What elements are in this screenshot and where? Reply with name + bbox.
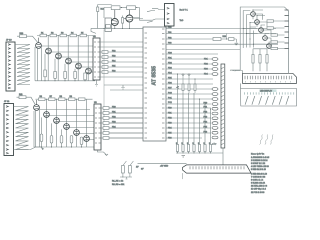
transistor Q14 <box>124 10 133 22</box>
3 vertical resistors right mid <box>252 49 268 72</box>
transistor Q1 <box>36 38 42 49</box>
squiggle wires <box>260 135 274 145</box>
resistor R10 above JP10 <box>17 33 38 42</box>
svg-text:10 XTAL 12M 1 6 6: 10 XTAL 12M 1 6 6 <box>251 185 267 188</box>
svg-text:Nome Qt Pr Tot: Nome Qt Pr Tot <box>251 153 264 156</box>
svg-text:R5: R5 <box>81 32 83 34</box>
labels PB right end <box>204 102 208 133</box>
transistor Q4 <box>66 58 72 64</box>
wire zigzag bundle from JP11 <box>14 107 29 150</box>
transistor Q18 <box>263 36 268 41</box>
svg-text:R9: R9 <box>70 96 72 98</box>
connector JP11 <box>4 101 14 156</box>
svg-text:R4: R4 <box>71 32 73 34</box>
svg-text:R7: R7 <box>50 96 52 98</box>
svg-text:8 CON 4 1 4 4: 8 CON 4 1 4 4 <box>251 180 263 182</box>
svg-text:R1: R1 <box>41 32 43 34</box>
svg-text:+ 5 v: + 5 v <box>212 144 216 146</box>
svg-text:PD2: PD2 <box>204 64 208 66</box>
transistor Q17 <box>259 28 264 33</box>
svg-text:Rx D T 1: Rx D T 1 <box>180 10 189 12</box>
transistor Q8 <box>44 112 50 118</box>
wire to block lower left <box>166 49 240 51</box>
IC U2 driver <box>93 36 100 80</box>
svg-text:R8: R8 <box>60 96 62 98</box>
parts list text <box>251 153 269 195</box>
svg-text:PD4: PD4 <box>204 74 208 76</box>
cascade1 ground bus <box>35 47 95 81</box>
wires above display strip <box>230 11 289 73</box>
svg-text:R6..R9 = 10k: R6..R9 = 10k <box>112 184 125 186</box>
oscillator bus wires <box>91 8 143 34</box>
svg-text:0V: 0V <box>141 169 144 171</box>
svg-text:4 LED 7SEG 4 15 60: 4 LED 7SEG 4 15 60 <box>251 166 269 168</box>
IC right pin labels <box>168 27 172 139</box>
transistor Q7 <box>34 100 40 110</box>
svg-text:1 AT89S8535 1 45 45: 1 AT89S8535 1 45 45 <box>251 156 269 159</box>
svg-text:+5V GND: +5V GND <box>160 165 169 167</box>
two resistors bottom mid <box>120 161 133 179</box>
wire vertical pair below Q1 <box>38 48 42 82</box>
svg-text:7 CON 20 2 8 16: 7 CON 20 2 8 16 <box>251 177 265 179</box>
long wires P0 to right block <box>166 29 278 45</box>
transistor Q10 <box>64 124 70 130</box>
transistor Q2 <box>46 48 52 54</box>
wire vertical pair below Q7 <box>36 110 40 148</box>
cascade2 collector wires <box>40 110 95 140</box>
resistor cluster mid right <box>182 74 197 93</box>
svg-text:PA3: PA3 <box>112 54 115 57</box>
long bottom wire <box>138 162 187 164</box>
display module DS1 <box>241 83 297 106</box>
svg-text:5 RES 1k 16 1 16: 5 RES 1k 16 1 16 <box>251 169 266 171</box>
cascade2 emitter resistors <box>40 117 83 147</box>
svg-text:JP 11: JP 11 <box>4 101 10 103</box>
svg-text:R6: R6 <box>40 96 42 98</box>
transistor Q3 <box>56 53 62 59</box>
resistor R21 left of block with ground <box>221 34 238 45</box>
transistor Q6 <box>86 68 92 74</box>
step wire with arrow near JP11 bottom <box>14 147 45 150</box>
svg-text:AT 8535: AT 8535 <box>152 66 158 86</box>
long wires PB to right connector <box>109 104 211 138</box>
svg-text:R1..R5 = 1k: R1..R5 = 1k <box>112 181 124 183</box>
cascade1 emitter resistors <box>44 54 87 81</box>
cascade1 resistor row R1-R5 <box>37 32 93 36</box>
wires below U2 to IC <box>104 85 143 90</box>
resistor R12 top <box>111 6 127 10</box>
right vertical connector bar <box>221 64 225 148</box>
svg-text:R20: R20 <box>223 36 226 38</box>
svg-text:9 BL202 2 22 44: 9 BL202 2 22 44 <box>251 183 265 185</box>
wire U2 bottom ground <box>95 80 98 86</box>
svg-text:PD3: PD3 <box>204 69 208 71</box>
IC U3 driver <box>94 102 101 150</box>
cascade2 vertical grid wires <box>47 99 87 147</box>
resistor R15 vertical mid <box>121 16 123 29</box>
transistor Q19 <box>267 44 272 49</box>
transistor Q16 <box>255 20 260 25</box>
step wire arrow below U3 <box>98 150 109 156</box>
connector J3 serial <box>165 4 175 29</box>
resistors right of U3 <box>101 106 143 139</box>
svg-text:PA6: PA6 <box>112 69 115 72</box>
ground below U2 wires <box>121 88 124 90</box>
long vertical wire from osc bus <box>103 30 105 135</box>
wire zigzag bundle from JP10 <box>15 45 30 85</box>
svg-text:PA5: PA5 <box>112 64 115 67</box>
wires IC right mid <box>166 54 218 99</box>
IC U1 AT8535 <box>143 27 166 141</box>
block pins <box>285 10 289 49</box>
cascade1 collector wires <box>42 46 94 72</box>
resistors right of U2 <box>100 42 143 77</box>
svg-text:TxD: TxD <box>180 20 184 22</box>
svg-text:PA4: PA4 <box>112 59 115 62</box>
transistor Q5 <box>76 63 82 69</box>
svg-text:R2: R2 <box>51 32 53 34</box>
transistor Q15 <box>251 12 256 17</box>
cascade1 vertical grid wires <box>48 36 88 81</box>
cascade2 ground bus <box>34 111 95 147</box>
display pin strip <box>243 73 297 83</box>
resistors in block <box>267 20 285 50</box>
svg-text:2 ULN2803 2 12 24: 2 ULN2803 2 12 24 <box>251 160 267 162</box>
svg-text:LED DISPLAY: LED DISPLAY <box>260 90 273 93</box>
transistor Q13 <box>107 10 118 26</box>
connector JP10 <box>6 40 15 92</box>
svg-text:PD1: PD1 <box>204 59 208 61</box>
block internal wires <box>243 10 272 48</box>
arrowheads at wire ends <box>177 58 219 89</box>
svg-text:5V: 5V <box>136 167 139 169</box>
svg-text:R3: R3 <box>61 32 63 34</box>
bottom connector BL202 <box>183 165 252 179</box>
vertical drop wires to resistor bank <box>177 74 211 144</box>
oscillator resistor R14 vertical <box>97 5 112 29</box>
svg-text:PD2: PD2 <box>168 63 172 65</box>
svg-text:R14: R14 <box>101 9 104 11</box>
wires osc to J3 <box>133 8 165 22</box>
svg-text:6 RES 10k 16 1 16: 6 RES 10k 16 1 16 <box>251 174 267 176</box>
oscillator frame box <box>105 18 111 31</box>
svg-text:PA2: PA2 <box>112 49 115 52</box>
svg-text:11 CAP 33p 2 2 4: 11 CAP 33p 2 2 4 <box>251 188 266 191</box>
transistor Q12 <box>84 136 90 142</box>
resistor R20 inline <box>213 36 226 41</box>
svg-text:12 PCB 1 80 80: 12 PCB 1 80 80 <box>251 192 264 194</box>
top right block frame <box>240 7 289 73</box>
small resistor bank above bottom connector <box>176 143 223 165</box>
cascade2 resistor row R6-R9 <box>36 96 93 100</box>
resistor R11 above JP11 <box>17 94 36 104</box>
transistor Q9 <box>54 118 60 124</box>
svg-text:3 BC547 11 2 22: 3 BC547 11 2 22 <box>251 163 265 165</box>
pin ovals at right connector <box>212 88 218 139</box>
svg-text:JP 10: JP 10 <box>6 40 12 42</box>
resistor R13 top <box>127 6 140 18</box>
transistor Q11 <box>74 130 80 136</box>
